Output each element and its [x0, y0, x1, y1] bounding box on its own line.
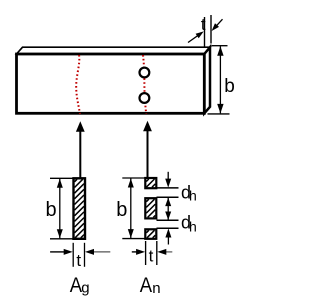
b dimension line (bar) [219, 46, 221, 113]
arrow A_n section to bar [147, 131, 149, 178]
A_n gap1 extension bottom [157, 196, 179, 198]
d_h arrow above gap1 [167, 172, 169, 180]
A_n b dimension line [130, 179, 132, 239]
svg-text:h: h [189, 218, 197, 234]
svg-text:A: A [140, 274, 153, 297]
svg-text:b: b [116, 199, 127, 221]
A_n t arrow right [164, 251, 172, 253]
A_n gap1 extension top [157, 187, 179, 189]
section cut line right (red dotted) [143, 55, 146, 114]
b extension line top [212, 45, 228, 47]
arrow A_g section to bar [79, 131, 81, 178]
A_g t arrow right [92, 251, 110, 253]
A_n t arrow left [132, 251, 139, 253]
t extension line right [210, 15, 212, 44]
bolt hole lower [140, 93, 150, 103]
svg-text:g: g [81, 280, 89, 297]
A_n b extension bottom [122, 238, 145, 240]
A_n t tick left [145, 241, 147, 265]
A_n gap2 extension bottom [157, 227, 179, 229]
A_g t arrow left [50, 251, 66, 253]
A_n b extension top [122, 177, 145, 179]
t arrow lower-left [188, 33, 201, 42]
b extension line bottom [208, 113, 230, 115]
d_h arrow below gap2 [167, 237, 169, 245]
svg-text:t: t [149, 247, 154, 266]
bar end face [204, 47, 210, 113]
bar front face [17, 54, 205, 113]
A_g t tick left [72, 243, 74, 267]
svg-text:h: h [189, 188, 197, 204]
svg-text:b: b [46, 199, 57, 221]
A_n gap2 extension top [157, 219, 179, 221]
t extension line left [204, 17, 206, 47]
t arrow upper-right [214, 19, 223, 29]
bolt hole upper [140, 68, 150, 78]
svg-text:t: t [201, 15, 206, 34]
A_n t tick right [156, 241, 158, 265]
A_g b extension bottom [50, 238, 73, 240]
A_g hatched section [74, 178, 86, 239]
svg-text:t: t [76, 251, 81, 270]
d_h double arrow between gaps [167, 198, 169, 220]
A_g t tick right [84, 243, 86, 267]
A_g b dimension line [59, 179, 61, 239]
A_g b extension top [50, 177, 73, 179]
bar top face [17, 47, 211, 54]
svg-text:b: b [224, 76, 235, 97]
svg-text:n: n [152, 280, 160, 297]
section cut line left (red dotted) [76, 55, 80, 114]
A_n hatched section (3 blocks) [145, 178, 156, 239]
